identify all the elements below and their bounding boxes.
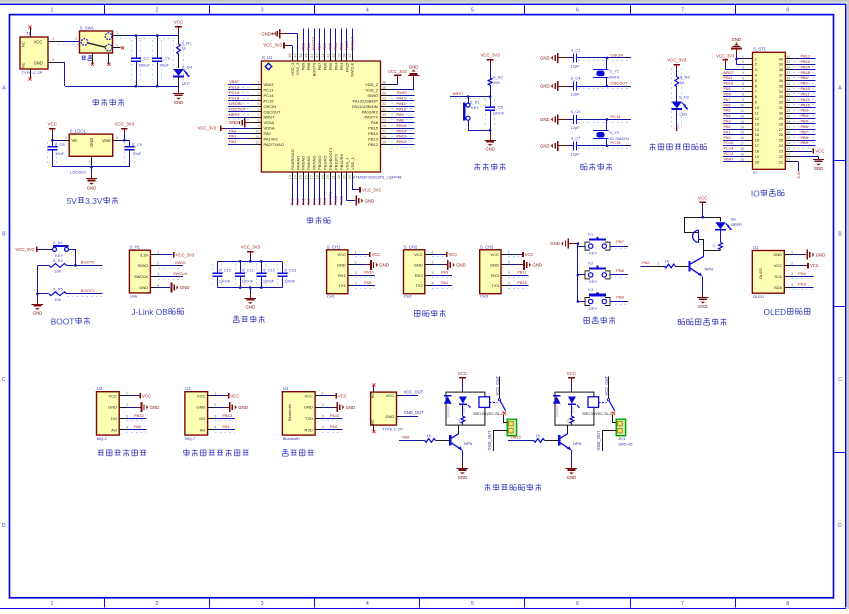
svg-text:PB14: PB14 <box>397 128 408 133</box>
svg-text:28: 28 <box>786 120 790 124</box>
wire net PA15 <box>346 29 348 54</box>
ST1 pin 28 stub right <box>785 123 793 125</box>
svg-text:7: 7 <box>742 87 744 91</box>
svg-text:S_H1: S_H1 <box>130 245 141 250</box>
ST1 pin 33 stub right <box>785 96 793 98</box>
svg-text:PB4: PB4 <box>333 62 338 70</box>
svg-text:TXD: TXD <box>305 416 313 421</box>
capacitor S_C2 100uF <box>131 40 133 82</box>
svg-text:S_R4: S_R4 <box>53 258 64 263</box>
svg-text:12: 12 <box>755 117 759 121</box>
svg-text:4: 4 <box>355 282 357 286</box>
wire net PA4 <box>297 180 299 206</box>
svg-text:10K: 10K <box>54 297 61 302</box>
svg-text:PB14: PB14 <box>368 131 379 136</box>
svg-text:17: 17 <box>740 142 744 146</box>
wire net PB7 <box>319 29 321 54</box>
svg-text:23: 23 <box>779 149 783 153</box>
ST1 pin 38 stub right <box>785 69 793 71</box>
svg-text:3: 3 <box>261 8 264 14</box>
connector T2 TYPE-C-2P output <box>371 392 397 425</box>
svg-text:1: 1 <box>52 37 54 41</box>
svg-text:PB6: PB6 <box>323 62 328 70</box>
svg-text:OSCOUT: OSCOUT <box>611 80 629 85</box>
svg-text:RX3: RX3 <box>491 273 500 278</box>
svg-text:PA11: PA11 <box>801 91 810 96</box>
svg-text:K2: K2 <box>588 260 594 265</box>
svg-text:7: 7 <box>681 8 684 14</box>
wire net PB11 <box>341 180 343 206</box>
svg-text:GND: GND <box>540 56 550 61</box>
svg-text:14: 14 <box>755 128 759 132</box>
svg-text:PA7/AO: PA7/AO <box>312 156 317 170</box>
svg-text:29: 29 <box>786 114 790 118</box>
wire net PB4 <box>791 278 813 280</box>
wire net PB5 <box>330 29 332 54</box>
svg-text:GND: GND <box>246 305 256 310</box>
svg-text:1K: 1K <box>664 258 669 263</box>
svg-text:PC15: PC15 <box>229 96 240 101</box>
wire net PA3 <box>723 123 745 125</box>
svg-text:GND: GND <box>567 475 577 480</box>
svg-text:VCC: VCC <box>231 394 240 399</box>
svg-text:35: 35 <box>779 84 783 88</box>
U1 pin 44 BOOT0 <box>314 54 316 62</box>
wire net PB11 <box>723 80 745 82</box>
wire net PB13 <box>793 66 815 68</box>
power VCC_3V3 reset <box>487 59 494 61</box>
svg-text:PA10: PA10 <box>801 86 811 91</box>
svg-text:LED: LED <box>680 112 688 117</box>
transistor NPN alarm <box>688 261 690 272</box>
svg-text:2: 2 <box>126 403 128 407</box>
svg-text:25: 25 <box>786 136 790 140</box>
U1 pin 5 OSCIN <box>251 106 261 108</box>
svg-text:PB13: PB13 <box>368 137 379 142</box>
U1 pin 26 PB13 <box>381 138 392 140</box>
svg-text:PA6: PA6 <box>402 435 410 440</box>
svg-text:30: 30 <box>382 113 386 117</box>
wire net PA7 <box>723 102 745 104</box>
wire net PB13 <box>215 420 235 422</box>
U1 pin 37 SWCLK <box>352 54 354 62</box>
capacitor S_C10 100nF <box>212 264 214 286</box>
svg-text:K1: K1 <box>588 232 594 237</box>
svg-text:VCC_3V3: VCC_3V3 <box>716 53 735 58</box>
svg-text:8: 8 <box>786 8 789 14</box>
wire net PA1 <box>723 134 745 136</box>
wire VCC to LDO Vin <box>52 140 62 142</box>
wire net PB6 <box>793 131 815 133</box>
svg-text:1: 1 <box>51 601 54 607</box>
svg-text:36: 36 <box>779 79 783 83</box>
wire net GND_OUT <box>397 416 404 418</box>
svg-text:PA3: PA3 <box>724 119 731 124</box>
svg-text:NRST: NRST <box>229 112 240 117</box>
U1 pin 8 VSSA <box>251 122 261 124</box>
svg-text:2: 2 <box>742 60 744 64</box>
svg-text:PB2/BOOT1: PB2/BOOT1 <box>328 147 333 170</box>
svg-text:PA10: PA10 <box>364 270 374 275</box>
svg-text:8: 8 <box>786 601 789 607</box>
svg-text:VCC: VCC <box>304 393 313 398</box>
svg-text:B: B <box>838 231 842 237</box>
svg-text:16: 16 <box>740 136 744 140</box>
svg-text:VCC: VCC <box>48 121 58 126</box>
svg-text:14: 14 <box>294 175 298 179</box>
svg-text:B: B <box>2 231 6 237</box>
svg-text:S_CH1: S_CH1 <box>327 244 341 249</box>
wire net PB9 <box>303 29 305 54</box>
svg-text:10uF: 10uF <box>55 151 65 156</box>
svg-text:VCC_3V3: VCC_3V3 <box>362 188 381 193</box>
wire bus to K3 <box>578 301 585 303</box>
node VCC rail junctions <box>135 34 138 37</box>
wire net PB1 <box>723 91 745 93</box>
svg-text:1K: 1K <box>535 433 540 438</box>
svg-text:39: 39 <box>779 63 783 67</box>
wire net PB12 <box>126 420 146 422</box>
svg-text:PA5: PA5 <box>300 197 305 205</box>
svg-text:BOOT1: BOOT1 <box>81 288 95 293</box>
svg-text:10K: 10K <box>493 80 500 85</box>
svg-text:GND: GND <box>150 405 160 410</box>
svg-text:18: 18 <box>315 175 319 179</box>
svg-text:PB5: PB5 <box>328 42 333 50</box>
wire net NRST <box>723 75 745 77</box>
svg-text:3.3V: 3.3V <box>85 196 103 206</box>
capacitor S_C8 10uF <box>47 142 49 164</box>
caption 主芯片 <box>309 217 311 224</box>
svg-text:MQ-7: MQ-7 <box>185 436 196 441</box>
svg-text:PB0: PB0 <box>724 91 732 96</box>
svg-text:40: 40 <box>332 54 336 58</box>
U1 pin 6 OSCOUT <box>251 111 261 113</box>
svg-text:34: 34 <box>779 90 783 94</box>
svg-text:PA1: PA1 <box>229 134 237 139</box>
svg-text:3: 3 <box>65 136 67 140</box>
svg-text:43: 43 <box>315 54 319 58</box>
wire collector to relay <box>567 425 569 433</box>
svg-text:GND: GND <box>33 311 43 316</box>
svg-text:PA6: PA6 <box>724 102 731 107</box>
wire emitter to ground <box>702 277 704 292</box>
wire net PA1 <box>228 138 251 140</box>
buzzer B1 <box>684 217 686 233</box>
wire net BOOT0 <box>314 29 316 54</box>
svg-text:8MHz: 8MHz <box>609 74 619 79</box>
svg-text:OLED: OLED <box>758 268 763 279</box>
power VCC_3V3 at H1 pin1 <box>158 254 173 256</box>
svg-text:3: 3 <box>116 31 118 35</box>
U1 pin 27 PB14 <box>381 133 392 135</box>
svg-text:7: 7 <box>258 113 260 117</box>
svg-text:OSCIN: OSCIN <box>264 104 277 109</box>
svg-text:32: 32 <box>382 102 386 106</box>
wire net PB0 <box>723 96 745 98</box>
svg-text:S_Y2: S_Y2 <box>609 130 620 135</box>
svg-text:4: 4 <box>742 71 744 75</box>
svg-text:PB10/TX: PB10/TX <box>333 154 338 170</box>
svg-text:PA4/AO: PA4/AO <box>295 156 300 170</box>
svg-text:PA8: PA8 <box>371 120 379 125</box>
svg-text:35: 35 <box>786 82 790 86</box>
ground OLED <box>791 254 803 256</box>
svg-text:PB8: PB8 <box>306 42 311 50</box>
svg-text:VCC_3V3: VCC_3V3 <box>176 252 195 257</box>
svg-text:10uF: 10uF <box>132 151 142 156</box>
wire net PB14 <box>391 136 414 138</box>
svg-text:12pF: 12pF <box>571 125 581 130</box>
wire alarm bottom rail <box>704 250 721 252</box>
svg-text:100nF: 100nF <box>242 279 254 284</box>
power VCC alarm <box>699 201 706 203</box>
caption 串口电路 <box>414 309 420 311</box>
svg-text:10: 10 <box>256 129 260 133</box>
wire net PC13 <box>228 92 250 94</box>
wire net NRST <box>228 119 250 121</box>
wire connector pin1 to relay switch <box>613 422 616 424</box>
resistor 1K alarm <box>720 230 722 243</box>
wire net PC15 <box>228 103 250 105</box>
svg-text:GND: GND <box>385 414 394 419</box>
svg-text:BOOT0: BOOT0 <box>312 62 317 76</box>
svg-text:33: 33 <box>786 93 790 97</box>
ST1 pin 9 stub left <box>745 102 753 104</box>
capacitor S_C9 10uF <box>124 142 126 164</box>
svg-text:2: 2 <box>156 601 159 607</box>
power VCC at U2 <box>126 395 136 397</box>
svg-text:GND: GND <box>532 263 542 268</box>
svg-text:GND: GND <box>550 241 560 246</box>
wire S_K2 to BOOT0 node <box>69 249 76 251</box>
wire collector to relay <box>458 425 460 433</box>
push button S_K1 KEY <box>468 97 470 104</box>
caption 电源电路 <box>95 99 97 106</box>
wire net PA11 <box>793 99 815 101</box>
wire net PA3 <box>292 180 294 206</box>
svg-text:OSCOUT: OSCOUT <box>264 109 282 114</box>
wire net PA5 <box>723 113 745 115</box>
wire connector pin1 to relay switch <box>504 422 507 424</box>
wire net PB10 <box>508 288 528 290</box>
wire net OSCOUT <box>578 88 630 90</box>
S_LDO1 GND pin <box>91 156 93 167</box>
T2 bottom no-connect <box>373 425 375 431</box>
svg-text:2: 2 <box>214 403 216 407</box>
connector T1 TYPE-C-2P <box>20 37 48 69</box>
svg-text:27: 27 <box>382 129 386 133</box>
U1 pin 35 VSS_2 <box>381 89 392 91</box>
ground at S_CH1 <box>355 264 367 266</box>
svg-text:VCC_3V3: VCC_3V3 <box>263 43 282 48</box>
svg-text:D: D <box>2 523 6 529</box>
ST1 pin 23 stub right <box>785 151 793 153</box>
wire net PB5 to LED <box>676 109 678 131</box>
svg-text:PB11/RX: PB11/RX <box>339 154 344 170</box>
svg-text:29: 29 <box>779 117 783 121</box>
power VCC at S_CH3 <box>508 256 522 258</box>
svg-text:11: 11 <box>740 109 744 113</box>
wire net PC14 <box>723 151 745 153</box>
svg-text:PA3/RX/AO: PA3/RX/AO <box>290 149 295 170</box>
svg-text:PB4: PB4 <box>333 42 338 50</box>
wire net PA9 <box>355 288 375 290</box>
svg-text:D: D <box>838 523 842 529</box>
svg-text:100nF: 100nF <box>493 111 505 116</box>
svg-text:24: 24 <box>348 175 352 179</box>
svg-text:12: 12 <box>740 114 744 118</box>
diode 1N4007 <box>553 396 561 403</box>
svg-text:2: 2 <box>791 261 793 265</box>
svg-text:SWCLK: SWCLK <box>173 271 188 276</box>
svg-text:GND: GND <box>197 405 206 410</box>
wire collector <box>703 250 705 256</box>
wire net PB9 <box>610 304 628 306</box>
svg-text:GND_OUT: GND_OUT <box>487 430 492 451</box>
wire bus to K1 <box>578 246 585 248</box>
wire net PA12 <box>391 103 414 105</box>
svg-text:VCC: VCC <box>774 263 783 268</box>
resistor 1K relay <box>462 404 464 416</box>
svg-text:VCC: VCC <box>142 394 151 399</box>
svg-text:SRD-05VDC-SL-C: SRD-05VDC-SL-C <box>473 412 504 416</box>
svg-text:45: 45 <box>305 54 309 58</box>
svg-text:PB15: PB15 <box>368 126 379 131</box>
svg-text:1K: 1K <box>426 433 431 438</box>
svg-text:S_Y1: S_Y1 <box>609 69 620 74</box>
wire net PB5 <box>793 126 815 128</box>
svg-text:2: 2 <box>258 86 260 90</box>
svg-text:IO: IO <box>753 170 757 175</box>
svg-text:VSSA: VSSA <box>264 120 275 125</box>
svg-text:PB1: PB1 <box>724 86 731 91</box>
svg-text:4: 4 <box>755 74 757 78</box>
svg-text:GND: GND <box>139 285 148 290</box>
capacitor S_C3 10uF <box>152 40 154 82</box>
ST1 pin 2 stub left <box>745 64 753 66</box>
power VCC ST1 pin 23 <box>793 151 812 153</box>
svg-text:IO: IO <box>751 189 760 199</box>
svg-text:18: 18 <box>755 149 759 153</box>
svg-text:PA9/TX: PA9/TX <box>365 115 379 120</box>
relay coil frame <box>555 392 594 425</box>
resistor S_R3 1K <box>671 68 673 128</box>
wire net NRST <box>450 98 490 100</box>
wire GND rail <box>58 62 65 64</box>
svg-text:9: 9 <box>258 124 260 128</box>
svg-text:PC13: PC13 <box>724 151 734 156</box>
LED relay <box>459 397 467 404</box>
svg-text:PB6: PB6 <box>322 42 327 50</box>
svg-text:PC13: PC13 <box>229 85 240 90</box>
svg-text:PA12: PA12 <box>397 96 407 101</box>
wire net PB7 <box>793 137 815 139</box>
svg-text:12: 12 <box>256 140 260 144</box>
svg-text:PA2: PA2 <box>724 124 731 129</box>
svg-text:S_K1: S_K1 <box>470 99 481 104</box>
ground at S_CH3 <box>508 264 520 266</box>
relay coil S box <box>588 397 599 408</box>
svg-text:U1: U1 <box>753 245 759 250</box>
ST1 pin 34 stub right <box>785 91 793 93</box>
diode 1N4007 <box>444 396 452 403</box>
svg-text:Link: Link <box>130 294 137 299</box>
ground filter <box>250 288 252 294</box>
svg-text:VBAT: VBAT <box>264 82 275 87</box>
svg-text:29: 29 <box>382 119 386 123</box>
svg-text:17: 17 <box>755 144 759 148</box>
U1 pin 16 PA6/AO <box>308 172 310 180</box>
U1 pin 36 VDD_2 <box>381 84 392 86</box>
svg-text:PA2: PA2 <box>642 260 650 265</box>
svg-text:37: 37 <box>779 74 783 78</box>
svg-text:10: 10 <box>755 106 759 110</box>
svg-text:14: 14 <box>740 125 744 129</box>
svg-text:28: 28 <box>779 122 783 126</box>
U1 pin 39 PB3 <box>341 54 343 62</box>
svg-text:2: 2 <box>75 37 77 41</box>
U1 pin 11 PA1/AO <box>251 138 261 140</box>
svg-text:PC14: PC14 <box>611 114 622 119</box>
svg-text:PA4: PA4 <box>295 197 300 205</box>
wire net BOOT1 <box>330 180 332 206</box>
relay switch armature <box>490 402 498 404</box>
svg-text:PA4: PA4 <box>724 113 732 118</box>
svg-text:BEEP: BEEP <box>731 222 742 227</box>
wire alarm top rail <box>684 217 721 219</box>
wire net PB10 <box>335 180 337 206</box>
svg-text:2: 2 <box>156 8 159 14</box>
ST1 pin 36 stub right <box>785 80 793 82</box>
svg-text:24: 24 <box>779 144 783 148</box>
wire net PA10 <box>355 277 375 279</box>
wire switch to VCC rail <box>120 38 178 40</box>
wire net PB12 <box>793 61 815 63</box>
U1 pin 42 PB6 <box>324 54 326 62</box>
U1 pin 48 VDD_3 <box>292 54 294 62</box>
svg-text:2: 2 <box>116 136 118 140</box>
svg-text:PB5: PB5 <box>328 62 333 70</box>
svg-text:OLED: OLED <box>764 307 787 317</box>
svg-text:7: 7 <box>755 90 757 94</box>
svg-text:100uF: 100uF <box>139 62 151 67</box>
svg-text:PC13: PC13 <box>264 87 275 92</box>
svg-text:OSCIN: OSCIN <box>229 101 242 106</box>
svg-text:VCC: VCC <box>449 252 458 257</box>
svg-text:PA10/RX: PA10/RX <box>362 109 378 114</box>
svg-text:1: 1 <box>116 43 118 47</box>
svg-text:PB4: PB4 <box>798 271 806 276</box>
svg-text:NC: NC <box>371 419 375 425</box>
svg-text:PA12/USB/DP: PA12/USB/DP <box>353 98 379 103</box>
svg-text:1K: 1K <box>680 80 685 85</box>
svg-text:VCC_3V3: VCC_3V3 <box>388 69 407 74</box>
wire net PA9 <box>322 432 342 434</box>
svg-text:7: 7 <box>681 601 684 607</box>
svg-text:PB9: PB9 <box>300 42 305 50</box>
svg-text:32.768KHz: 32.768KHz <box>609 136 629 141</box>
svg-text:PB1: PB1 <box>322 197 327 205</box>
svg-text:PB10: PB10 <box>724 81 734 86</box>
U1 pin 7 NRST <box>251 117 261 119</box>
S_SW1 pin 1 no-connect <box>113 47 121 49</box>
wire net VCC_OUT <box>397 395 404 397</box>
ST1 pin 13 stub left <box>745 123 753 125</box>
wire net OSCIN <box>578 60 630 62</box>
U1 pin 41 PB5 <box>330 54 332 62</box>
ST1 pin 15 stub left <box>745 134 753 136</box>
